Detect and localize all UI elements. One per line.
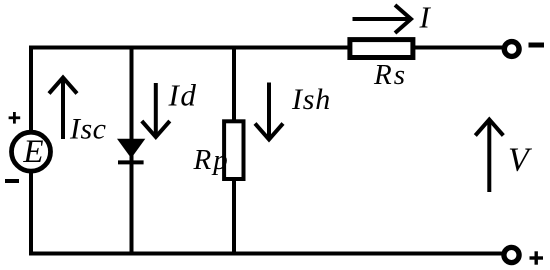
source E <box>12 132 51 171</box>
plus sign bottom terminal <box>530 251 544 264</box>
wire top rail <box>29 46 504 50</box>
terminal bottom (positive) <box>504 247 519 262</box>
wire bottom rail <box>29 252 506 256</box>
terminal top (negative) <box>504 42 519 57</box>
voltage arrow V <box>475 120 503 193</box>
svg-text:Ish: Ish <box>291 83 331 116</box>
svg-text:Rs: Rs <box>373 59 407 91</box>
svg-text:Rp: Rp <box>193 144 230 176</box>
resistor Rs <box>350 40 413 58</box>
svg-text:E: E <box>22 134 43 170</box>
svg-text:Id: Id <box>168 78 198 113</box>
wire diode branch <box>130 46 134 256</box>
plus sign of source E <box>9 112 21 124</box>
svg-text:I: I <box>419 0 432 35</box>
current arrow Isc <box>49 78 77 140</box>
wire left vertical <box>29 46 33 256</box>
current arrow Id <box>142 83 170 137</box>
resistor Rp <box>224 121 243 179</box>
minus sign top terminal <box>529 43 545 48</box>
minus sign of source E <box>5 179 19 183</box>
svg-text:Isc: Isc <box>69 113 106 146</box>
current arrow I <box>353 5 412 33</box>
current arrow Ish <box>255 83 283 140</box>
svg-text:V: V <box>508 142 533 179</box>
diode D <box>117 139 145 163</box>
wire Rp branch <box>232 46 236 256</box>
